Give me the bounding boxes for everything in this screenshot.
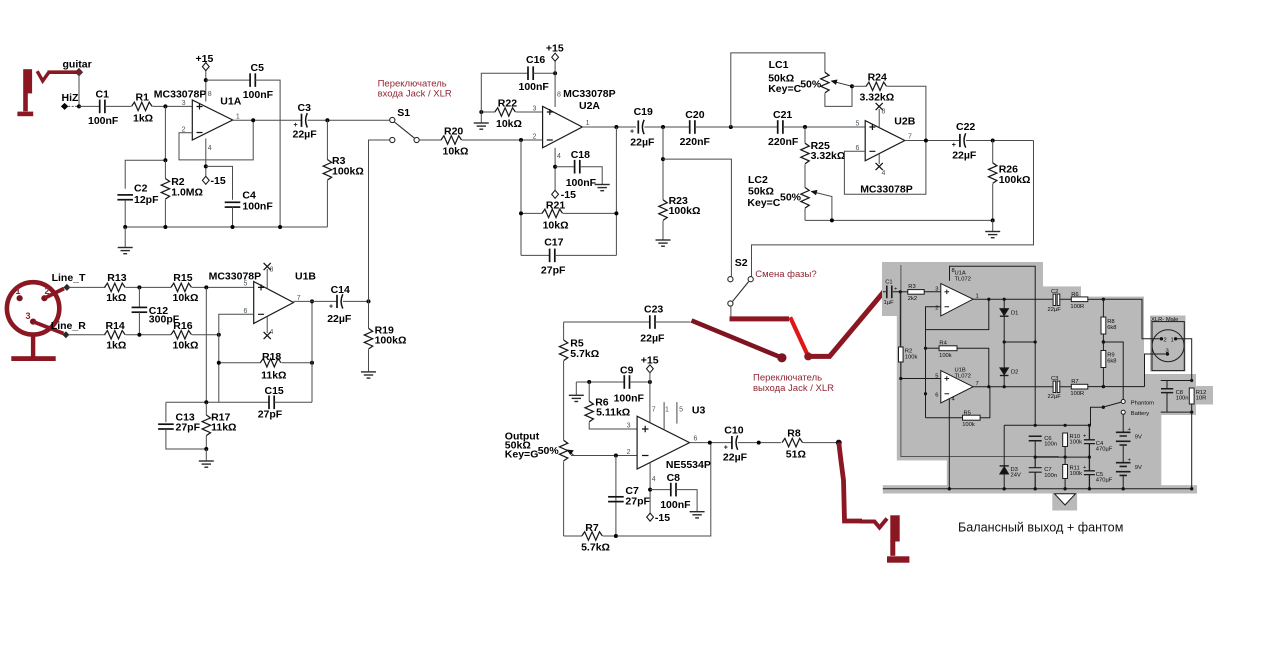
switch S2 <box>728 257 754 306</box>
resistor R11g 100k <box>1063 465 1068 479</box>
capacitor C7 27pF <box>608 497 624 502</box>
wire supply node <box>1004 424 1090 426</box>
junction R17 top <box>204 400 208 404</box>
svg-text:8: 8 <box>952 268 955 274</box>
junction guitar/HiZ <box>77 104 81 108</box>
junction C12 bottom <box>137 333 141 337</box>
wire U2A out <box>582 126 636 128</box>
svg-text:10R: 10R <box>1196 396 1207 402</box>
junction pin5 node <box>204 285 208 289</box>
svg-text:8: 8 <box>557 92 561 99</box>
svg-text:50%: 50% <box>538 445 560 457</box>
svg-text:Смена фазы?: Смена фазы? <box>755 269 816 280</box>
svg-text:C1: C1 <box>885 279 892 285</box>
junction R8/R9 <box>1102 340 1105 343</box>
svg-text:TL072: TL072 <box>955 277 971 283</box>
svg-text:6k8: 6k8 <box>1107 359 1116 365</box>
junction LC1 wiper <box>850 84 854 88</box>
svg-text:220nF: 220nF <box>680 136 711 148</box>
battery B1 9V <box>1122 415 1124 432</box>
svg-text:1kΩ: 1kΩ <box>106 340 126 352</box>
svg-text:5: 5 <box>935 373 938 379</box>
svg-text:U1A: U1A <box>220 96 241 108</box>
wire wiper to R24 <box>852 85 867 87</box>
svg-text:4: 4 <box>652 476 656 483</box>
wire C19 to C20 <box>644 126 689 128</box>
node XLR-output dot <box>804 352 812 360</box>
svg-text:470µF: 470µF <box>1096 478 1113 484</box>
svg-text:C20: C20 <box>685 109 704 121</box>
potentiometer Output 50k Key=G <box>505 431 574 537</box>
junction mid <box>757 441 761 445</box>
svg-text:1kΩ: 1kΩ <box>133 113 153 125</box>
wire C1g node <box>899 290 902 293</box>
junction R25 top <box>803 125 807 129</box>
junction pin4/C4 <box>204 164 208 168</box>
junction pin8/C5 <box>204 78 208 82</box>
wire C20 to C21 <box>695 126 778 128</box>
svg-text:+15: +15 <box>641 354 659 366</box>
wire U1A pin4 to -15 <box>205 139 207 178</box>
wire XLR pin3 to Line_R (hand drawn) <box>33 322 63 334</box>
capacitor C4 100nF <box>225 202 241 207</box>
svg-text:4: 4 <box>208 145 212 152</box>
wire R17 top link <box>166 401 219 403</box>
svg-text:1: 1 <box>586 120 590 127</box>
svg-text:2: 2 <box>533 134 537 141</box>
junction C9/+15 <box>648 380 652 384</box>
svg-text:100k: 100k <box>905 354 918 360</box>
ground C18 <box>595 185 610 191</box>
resistor R22 10k <box>495 108 516 116</box>
svg-text:+: + <box>294 122 298 129</box>
capacitor C4g 470uF <box>1084 425 1095 457</box>
wire gnd to C9/R6 <box>576 381 624 383</box>
junction rail dots <box>123 225 127 229</box>
svg-text:TL072: TL072 <box>955 374 971 380</box>
wire XLR pin2 to Line_T (hand drawn) <box>44 289 64 299</box>
svg-text:NE5534P: NE5534P <box>666 459 711 471</box>
wire U1Bg pin6 vertical <box>925 307 927 418</box>
wire XLR pin1 down <box>1176 339 1192 381</box>
svg-text:R20: R20 <box>444 126 463 138</box>
ground R19 <box>361 372 376 378</box>
svg-text:1µF: 1µF <box>884 300 895 306</box>
svg-text:MC33078P: MC33078P <box>209 270 262 282</box>
power +15 terminal (U1A) <box>202 63 209 71</box>
svg-text:5.7kΩ: 5.7kΩ <box>570 348 599 360</box>
wire R15 to U1B pin5 <box>192 286 254 288</box>
resistor R8 51 <box>782 438 803 446</box>
capacitor C18 100nF <box>555 166 574 168</box>
ground R26 <box>992 220 994 231</box>
node Line_R terminal <box>62 331 69 338</box>
wire U2B fb loop <box>844 141 926 195</box>
node HiZ terminal <box>61 103 68 110</box>
svg-text:C9: C9 <box>620 365 634 377</box>
capacitor C3 22uF polarized <box>302 113 308 127</box>
svg-text:Key=G: Key=G <box>505 449 539 461</box>
resistor R21 10k <box>521 212 542 214</box>
junction output node <box>836 440 842 446</box>
inner scan border <box>901 265 1059 457</box>
svg-text:C2: C2 <box>134 183 148 195</box>
svg-text:R14: R14 <box>106 320 125 332</box>
ground R22 <box>480 112 482 123</box>
svg-text:5: 5 <box>244 280 248 287</box>
svg-text:1: 1 <box>976 294 979 300</box>
svg-text:5: 5 <box>679 407 683 414</box>
capacitor C21 220nF <box>778 120 783 134</box>
svg-text:guitar: guitar <box>63 59 92 71</box>
svg-text:100nF: 100nF <box>566 177 597 189</box>
wire to C4 <box>206 166 233 199</box>
junction R2 top <box>163 158 167 162</box>
junction pin2 node <box>614 454 618 458</box>
svg-text:C15: C15 <box>265 385 284 397</box>
wire Line_T to R13 <box>68 286 106 288</box>
svg-text:C8: C8 <box>667 472 681 484</box>
wire wiper to pin2 <box>571 455 637 457</box>
svg-text:C17: C17 <box>544 237 563 249</box>
svg-text:U1B: U1B <box>295 270 316 282</box>
capacitor C3g 22uF <box>1053 381 1056 392</box>
svg-text:22µF: 22µF <box>327 313 352 325</box>
U1B pin8 NC <box>266 269 268 289</box>
svg-text:S1: S1 <box>397 107 410 119</box>
svg-text:51Ω: 51Ω <box>786 449 806 461</box>
wire riser to S1 <box>369 140 390 301</box>
svg-text:6: 6 <box>935 393 938 399</box>
svg-text:100n: 100n <box>1044 473 1057 479</box>
junction R6 top <box>587 380 591 384</box>
wire C9 right to +15 node <box>630 381 650 383</box>
resistor R4g 100k <box>926 347 940 349</box>
junction tone riser <box>729 125 733 129</box>
svg-text:HiZ: HiZ <box>62 92 80 104</box>
capacitor C2g 22uF <box>1053 294 1056 305</box>
svg-text:C2: C2 <box>1051 289 1058 295</box>
wire U2A fb left vertical <box>520 140 522 255</box>
svg-text:C1: C1 <box>96 89 110 101</box>
ground C8 <box>690 512 705 518</box>
junction R23 branch <box>661 157 665 161</box>
capacitor C22 22uF polarized <box>960 133 966 147</box>
diode D2 <box>1003 342 1005 387</box>
wire R1 to U1A pin3 <box>153 105 193 107</box>
wire U1B out to C14 <box>294 300 338 302</box>
svg-text:100kΩ: 100kΩ <box>375 335 407 347</box>
connector XLR-Male <box>1152 322 1184 371</box>
svg-text:R16: R16 <box>173 320 192 332</box>
svg-text:R22: R22 <box>498 98 517 110</box>
svg-text:C19: C19 <box>634 106 653 118</box>
resistor R12g 10R <box>1189 388 1194 404</box>
wire pin5 bias vertical <box>205 287 207 402</box>
svg-text:C23: C23 <box>644 304 663 316</box>
svg-text:100R: 100R <box>1070 304 1084 310</box>
zener D3 24V <box>1003 425 1005 489</box>
capacitor C5 100nF <box>250 73 255 87</box>
resistor R7 5.7k <box>564 535 582 537</box>
capacitor C9 100nF <box>624 375 629 389</box>
wire R8 to output jack (hand drawn) <box>839 443 862 521</box>
resistor R5g 100k fb <box>926 417 963 419</box>
resistor R5 5.7k <box>563 322 565 340</box>
junction U3 out <box>708 441 712 445</box>
U3 pin5 stub <box>676 402 678 424</box>
svg-text:LC1: LC1 <box>769 59 789 71</box>
wire bottom rail gray <box>883 488 1192 490</box>
wire HiZ dotted <box>68 105 79 107</box>
resistor R20 10k <box>441 136 462 144</box>
svg-text:9V: 9V <box>1135 465 1142 471</box>
svg-text:100nF: 100nF <box>519 81 550 93</box>
svg-text:R1: R1 <box>136 92 150 104</box>
wire C5 right down to rail <box>255 80 280 227</box>
svg-text:100R: 100R <box>1070 391 1084 397</box>
wire S1 common to R20 <box>419 139 441 141</box>
svg-text:100nF: 100nF <box>614 393 645 405</box>
wire R14 to R16 <box>126 334 172 336</box>
wire C14 to R19/S1 riser <box>343 300 369 302</box>
wire R1node down to C2/R2 <box>125 106 165 188</box>
svg-text:100kΩ: 100kΩ <box>332 166 364 178</box>
wire C22 to R26 and right <box>966 140 1034 142</box>
resistor R6 5.11k <box>588 382 590 401</box>
wire R16 to pin6 node <box>192 334 219 336</box>
svg-text:100nF: 100nF <box>88 115 119 127</box>
wire C23 to jack-output (hand drawn) <box>692 321 781 358</box>
junction C14 out <box>367 299 371 303</box>
capacitor C15 27pF <box>219 401 269 403</box>
svg-text:R24: R24 <box>868 72 887 84</box>
svg-text:1: 1 <box>16 286 21 296</box>
resistor R2 1.0M <box>164 160 166 178</box>
power +15 terminal (U3) <box>647 365 654 373</box>
potentiometer LC2 50k <box>747 174 832 220</box>
svg-text:50%: 50% <box>800 79 822 91</box>
wire HiZ to C1 <box>79 105 100 107</box>
svg-text:C16: C16 <box>526 54 545 66</box>
svg-text:Phantom: Phantom <box>1131 401 1154 407</box>
resistor R6g 100R <box>1071 297 1088 302</box>
capacitor C8 100nF <box>650 489 671 491</box>
svg-text:Line_R: Line_R <box>51 320 86 332</box>
resistor R23 100k <box>662 127 664 200</box>
junction C3/R3 <box>325 118 329 122</box>
wire U1A pin2 feedback loop <box>179 120 253 160</box>
svg-text:22µF: 22µF <box>723 451 748 463</box>
svg-text:7: 7 <box>976 381 979 387</box>
svg-text:100k: 100k <box>1070 471 1083 477</box>
svg-text:100n: 100n <box>1044 442 1057 448</box>
wire C3 to S1 <box>308 119 390 121</box>
wire U1Ag fb loop <box>926 299 989 329</box>
svg-text:27pF: 27pF <box>258 409 283 421</box>
svg-text:C18: C18 <box>571 149 590 161</box>
op-amp U1Bg TL072 <box>941 371 973 403</box>
svg-text:1: 1 <box>236 114 240 121</box>
svg-text:220nF: 220nF <box>768 136 799 148</box>
resistor R19 100k <box>368 301 370 328</box>
svg-text:R18: R18 <box>262 351 281 363</box>
wire R22 right to pin3 <box>516 111 543 113</box>
U2B pin4 NC <box>878 154 880 164</box>
svg-text:R13: R13 <box>107 272 126 284</box>
wire dot to gray C1 (hand drawn) <box>808 292 884 357</box>
resistor R17 11k <box>205 402 207 415</box>
capacitor C7g 100n <box>1029 457 1042 489</box>
capacitor C19 22uF polarized <box>638 120 644 134</box>
resistor R25 3.32k <box>804 127 806 143</box>
jack tip contact output (hand drawn check) <box>860 519 887 528</box>
svg-text:27pF: 27pF <box>541 265 566 277</box>
op-amp U2A MC33078P <box>533 88 616 160</box>
junction R18 ends <box>217 361 221 365</box>
svg-text:входа Jack / XLR: входа Jack / XLR <box>378 89 452 100</box>
resistor R18 11k <box>219 362 261 364</box>
jack plug J-output (hand drawn) <box>887 515 909 562</box>
svg-text:22µF: 22µF <box>1048 307 1062 313</box>
svg-text:Line_T: Line_T <box>52 272 86 284</box>
wire phantom feed <box>1103 342 1123 399</box>
junction U1A out <box>251 118 255 122</box>
svg-text:8: 8 <box>208 91 212 98</box>
wire S2 common down <box>730 306 732 319</box>
svg-text:7: 7 <box>652 407 656 414</box>
svg-text:100k: 100k <box>962 422 975 428</box>
resistor R15 10k <box>171 283 192 291</box>
svg-text:C3: C3 <box>298 102 312 114</box>
ground R23 <box>656 240 671 246</box>
svg-text:MC33078P: MC33078P <box>154 88 207 100</box>
svg-text:100n: 100n <box>1176 396 1189 402</box>
wire tone bottom rail <box>805 219 993 221</box>
ground C9 <box>575 382 577 395</box>
svg-text:C22: C22 <box>956 121 975 133</box>
wire to U1Bg pin5 <box>901 378 941 380</box>
resistor R2g 100k <box>899 292 901 347</box>
capacitor C13 27pF <box>165 402 167 422</box>
wire C10 to R8 <box>738 442 781 444</box>
svg-text:XLR- Male: XLR- Male <box>1151 317 1178 323</box>
resistor R14 1k <box>105 331 126 339</box>
wire fb right vertical <box>615 127 617 255</box>
svg-text:6k8: 6k8 <box>1107 325 1116 331</box>
svg-text:7: 7 <box>908 134 912 141</box>
svg-text:C3: C3 <box>1051 376 1058 382</box>
svg-text:3: 3 <box>627 423 631 430</box>
wire C16 right to +15 stem <box>533 72 555 74</box>
resistor R13 1k <box>105 283 126 291</box>
junction R21 ends <box>519 211 523 215</box>
svg-text:3: 3 <box>26 311 31 321</box>
svg-text:10kΩ: 10kΩ <box>173 292 199 304</box>
wire pin4 down <box>649 463 651 514</box>
capacitor C10 22uF polarized <box>732 435 738 449</box>
wire U1B output vertical <box>311 301 313 402</box>
svg-text:100nF: 100nF <box>660 499 691 511</box>
svg-text:1.0MΩ: 1.0MΩ <box>171 186 203 198</box>
wire guitar (hand drawn) <box>48 70 79 74</box>
svg-text:4: 4 <box>882 170 886 177</box>
wire U3 out <box>690 442 733 444</box>
junction R23 top <box>661 125 665 129</box>
resistor R7g 100R <box>1071 384 1088 389</box>
resistor R16 10k <box>171 331 192 339</box>
svg-text:+15: +15 <box>546 43 564 55</box>
node jack-output dot <box>777 353 786 362</box>
svg-text:-15: -15 <box>211 175 226 187</box>
svg-text:10kΩ: 10kΩ <box>173 340 199 352</box>
svg-text:R7: R7 <box>1071 379 1078 385</box>
svg-text:D1: D1 <box>1011 311 1018 317</box>
wire U1Ag out <box>973 298 1071 300</box>
svg-text:R21: R21 <box>546 200 565 212</box>
svg-text:MC33078P: MC33078P <box>563 88 616 100</box>
wire guitar to HiZ node <box>78 74 80 106</box>
gray block labels <box>884 268 1207 484</box>
svg-text:10kΩ: 10kΩ <box>543 220 569 232</box>
junction R17 bottom <box>204 447 208 451</box>
svg-text:2: 2 <box>935 306 938 312</box>
resistor R24 3.32k <box>866 82 887 90</box>
U2B pin8 NC <box>878 109 880 128</box>
wire pin2 feed <box>1103 299 1159 339</box>
wire pin2 vertical to R7 <box>615 456 617 537</box>
U3 pin1 stub <box>663 402 665 430</box>
svg-text:3: 3 <box>182 100 186 107</box>
svg-text:U3: U3 <box>692 404 706 416</box>
svg-text:100nF: 100nF <box>242 200 273 212</box>
svg-text:470µF: 470µF <box>1096 447 1113 453</box>
ground U1B <box>205 449 207 461</box>
svg-text:MC33078P: MC33078P <box>860 183 913 195</box>
svg-text:R5: R5 <box>964 410 971 416</box>
resistor R1 1k <box>132 102 153 110</box>
svg-text:22µF: 22µF <box>293 129 318 141</box>
svg-text:1: 1 <box>1171 337 1174 343</box>
wire R22 left to ground node <box>481 111 495 113</box>
wire U2B out to C22 <box>905 140 960 142</box>
power -15 terminal (U1A) <box>202 176 209 184</box>
svg-text:27pF: 27pF <box>625 496 650 508</box>
svg-text:2: 2 <box>627 449 631 456</box>
resistor R3 100k <box>326 120 328 159</box>
junction LC2 wiper rail <box>830 218 834 222</box>
svg-text:24V: 24V <box>1011 473 1021 479</box>
op-amp U2B MC33078P <box>856 109 916 196</box>
wire U2A pin4 to -15 <box>554 148 556 191</box>
svg-text:6: 6 <box>694 436 698 443</box>
op-amp U3 NE5534P <box>627 404 711 483</box>
svg-text:Балансный выход + фантом: Балансный выход + фантом <box>958 521 1123 535</box>
svg-text:+15: +15 <box>196 53 214 65</box>
switch phantom/battery <box>1105 402 1121 407</box>
capacitor C6g 100n <box>1029 436 1042 441</box>
svg-text:3: 3 <box>935 286 938 292</box>
svg-text:1kΩ: 1kΩ <box>106 292 126 304</box>
junction R1 out <box>163 104 167 108</box>
svg-text:+: + <box>724 445 728 452</box>
capacitor C17 27pF <box>521 254 550 256</box>
wire R20 to U2A pin2 <box>462 139 543 141</box>
svg-text:27pF: 27pF <box>176 422 201 434</box>
svg-text:22µF: 22µF <box>630 137 655 149</box>
svg-text:C14: C14 <box>331 284 350 296</box>
wire R24 to U2B out <box>887 86 926 140</box>
